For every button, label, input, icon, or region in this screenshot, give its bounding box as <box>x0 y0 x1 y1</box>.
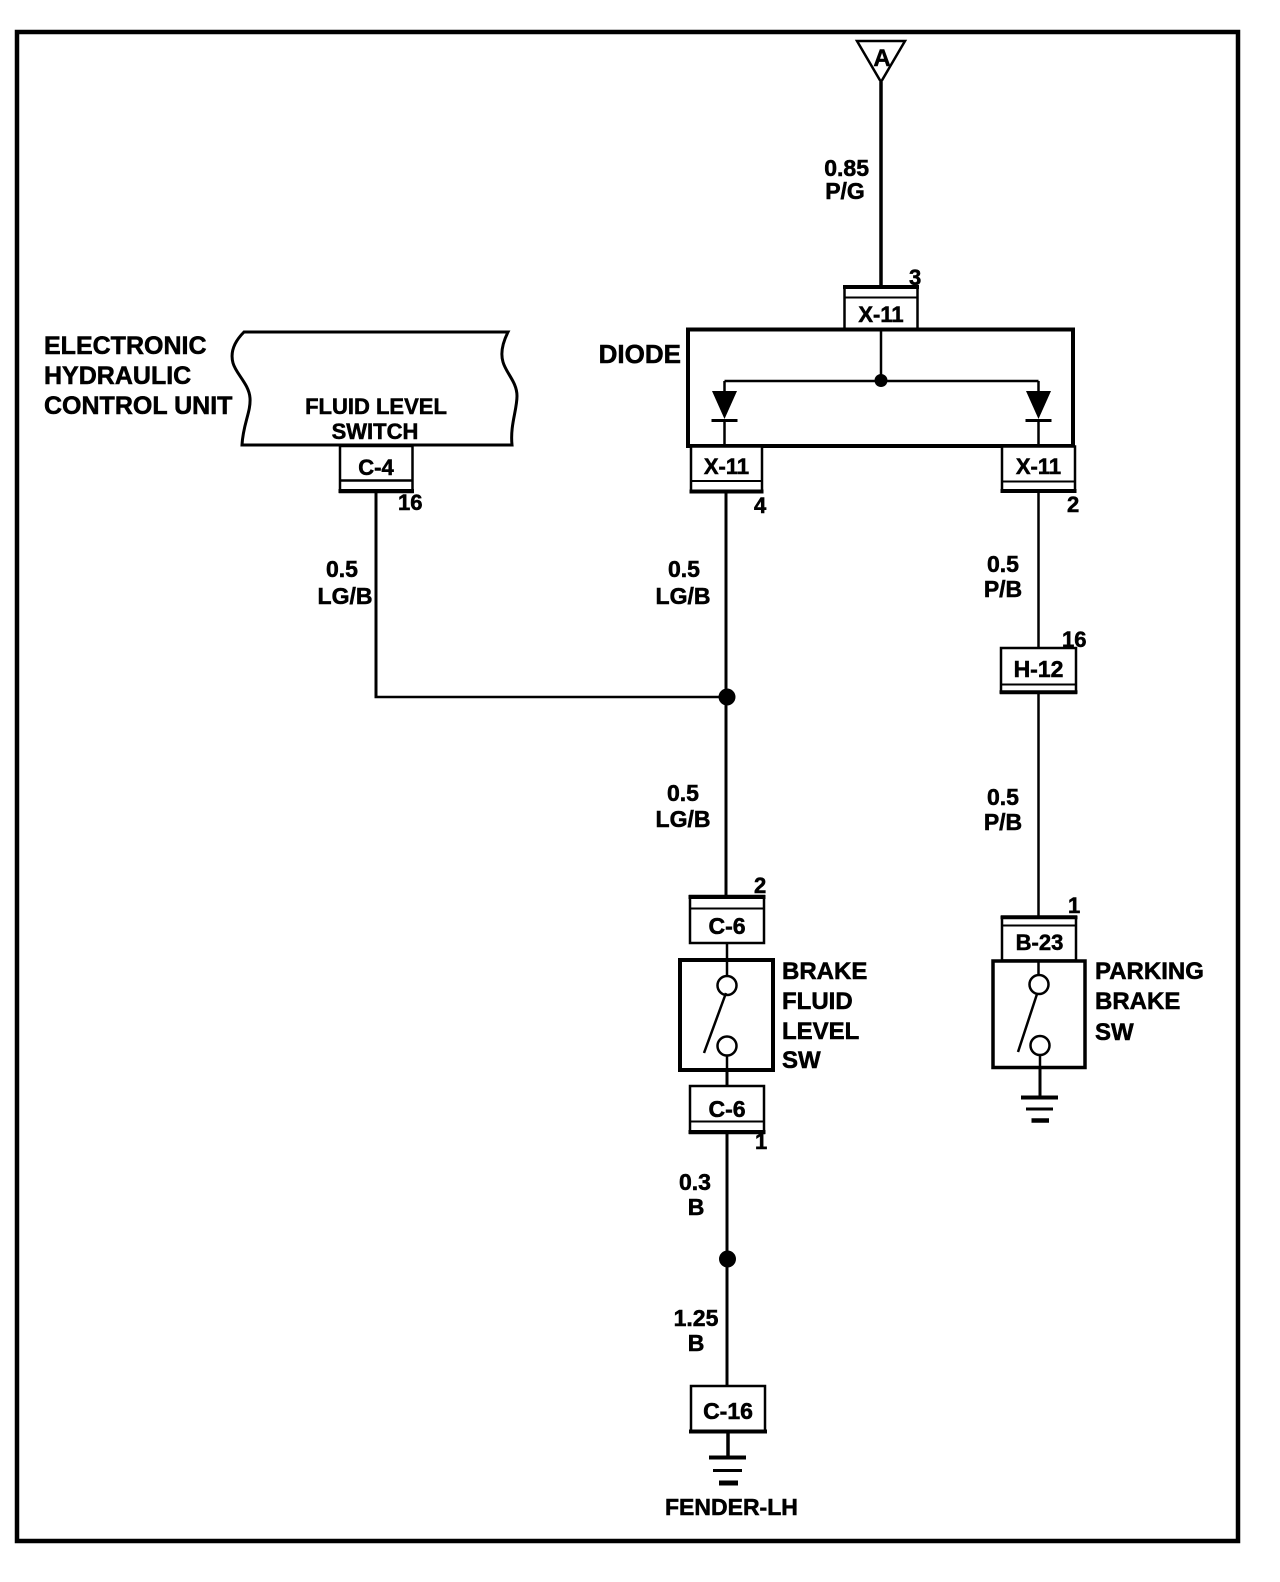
diode D2 (right) <box>1026 381 1052 446</box>
wire label 0.5 P/B (upper) <box>984 551 1022 602</box>
svg-text:X-11: X-11 <box>704 454 749 479</box>
svg-text:4: 4 <box>754 493 767 518</box>
svg-text:1: 1 <box>1068 893 1080 918</box>
svg-text:X-11: X-11 <box>858 302 903 327</box>
svg-text:2: 2 <box>754 873 766 898</box>
connector X-11 pin 3 <box>843 287 919 331</box>
svg-text:FENDER-LH: FENDER-LH <box>665 1494 798 1520</box>
wire C-6 down to C-16 <box>726 1133 729 1386</box>
svg-text:0.5: 0.5 <box>668 556 700 582</box>
svg-text:0.5: 0.5 <box>667 780 699 806</box>
wire internal horizontal <box>725 380 1039 383</box>
ground fender-lh <box>709 1432 746 1483</box>
svg-text:A: A <box>873 45 890 72</box>
svg-text:SWITCH: SWITCH <box>332 419 419 444</box>
label BRAKE FLUID LEVEL SW <box>782 958 867 1074</box>
wire label 0.85 P/G <box>824 155 869 204</box>
connector C-16 <box>689 1386 767 1432</box>
wire switch to C-6 bottom <box>726 1070 729 1086</box>
wire C-6 to switch <box>726 943 729 976</box>
svg-text:LG/B: LG/B <box>656 806 711 832</box>
svg-text:FLUID LEVEL: FLUID LEVEL <box>305 394 447 419</box>
svg-text:DIODE: DIODE <box>599 339 681 369</box>
diode D1 (left) <box>712 381 738 446</box>
svg-text:PARKING: PARKING <box>1095 958 1204 985</box>
brake fluid level switch <box>680 960 773 1070</box>
ECU box (fluid level switch fragment) <box>232 332 517 445</box>
svg-text:0.5: 0.5 <box>326 556 358 582</box>
svg-text:1.25: 1.25 <box>674 1305 719 1331</box>
connector X-11 pin 4 <box>690 447 764 493</box>
wire X-11 pin 2 down to H-12 <box>1037 492 1040 648</box>
svg-text:BRAKE: BRAKE <box>782 958 867 985</box>
svg-text:H-12: H-12 <box>1014 656 1064 682</box>
wire X-11 pin 4 down to C-6 <box>725 492 728 896</box>
svg-text:LEVEL: LEVEL <box>782 1018 859 1045</box>
svg-text:P/B: P/B <box>984 809 1022 835</box>
svg-text:0.3: 0.3 <box>679 1169 711 1195</box>
svg-text:HYDRAULIC: HYDRAULIC <box>44 362 191 390</box>
node junction <box>719 689 736 706</box>
svg-text:LG/B: LG/B <box>318 583 373 609</box>
wire H-12 to B-23 <box>1037 693 1040 917</box>
connector C-4 <box>339 446 415 492</box>
svg-text:B: B <box>688 1330 705 1356</box>
svg-text:FLUID: FLUID <box>782 988 853 1015</box>
svg-text:0.5: 0.5 <box>987 784 1019 810</box>
connector B-23 pin 1 <box>1001 917 1078 961</box>
svg-text:LG/B: LG/B <box>656 583 711 609</box>
svg-text:SW: SW <box>1095 1019 1134 1046</box>
wire label 0.5 LG/B (center) <box>656 556 711 609</box>
wire X-11 pin 3 to node <box>880 330 883 378</box>
wire label 0.5 P/B (lower) <box>984 784 1022 835</box>
wire horizontal to junction <box>375 696 729 699</box>
svg-text:SW: SW <box>782 1047 821 1074</box>
diode assembly box <box>688 330 1073 447</box>
svg-text:ELECTRONIC: ELECTRONIC <box>44 332 207 360</box>
svg-text:X-11: X-11 <box>1016 454 1061 479</box>
svg-text:BRAKE: BRAKE <box>1095 988 1180 1015</box>
svg-text:C-6: C-6 <box>708 1096 745 1122</box>
wire label 0.3 B <box>679 1169 711 1220</box>
svg-text:0.5: 0.5 <box>987 551 1019 577</box>
svg-text:16: 16 <box>398 490 422 515</box>
wire label 0.5 LG/B (lower) <box>656 780 711 832</box>
svg-text:C-4: C-4 <box>358 455 394 480</box>
connector C-6 pin 1 <box>689 1086 766 1133</box>
label ELECTRONIC HYDRAULIC CONTROL UNIT <box>44 332 232 420</box>
connector C-6 pin 2 <box>689 896 766 943</box>
svg-text:B-23: B-23 <box>1016 930 1064 955</box>
ground parking brake <box>1021 1067 1058 1121</box>
svg-text:B: B <box>688 1194 705 1220</box>
node junction lower <box>719 1251 736 1268</box>
parking brake switch <box>993 961 1085 1068</box>
svg-text:C-6: C-6 <box>708 913 745 939</box>
svg-text:2: 2 <box>1067 492 1079 517</box>
wire C-4 down to junction <box>375 492 378 697</box>
wire A to X-11 pin 3 <box>879 82 883 287</box>
svg-text:1: 1 <box>755 1129 767 1154</box>
svg-text:C-16: C-16 <box>703 1398 753 1424</box>
connector H-12 <box>1000 648 1078 693</box>
svg-text:P/G: P/G <box>825 178 865 204</box>
connector X-11 pin 2 <box>1001 447 1077 492</box>
wire label 0.5 LG/B (left) <box>318 556 373 609</box>
label PARKING BRAKE SW <box>1095 958 1204 1046</box>
wire label 1.25 B <box>674 1305 719 1356</box>
svg-text:CONTROL UNIT: CONTROL UNIT <box>44 392 232 420</box>
label FLUID LEVEL SWITCH <box>305 394 447 444</box>
svg-text:P/B: P/B <box>984 576 1022 602</box>
node junction inside diode box <box>875 374 888 387</box>
connector A (triangle off-page reference) <box>857 41 905 82</box>
